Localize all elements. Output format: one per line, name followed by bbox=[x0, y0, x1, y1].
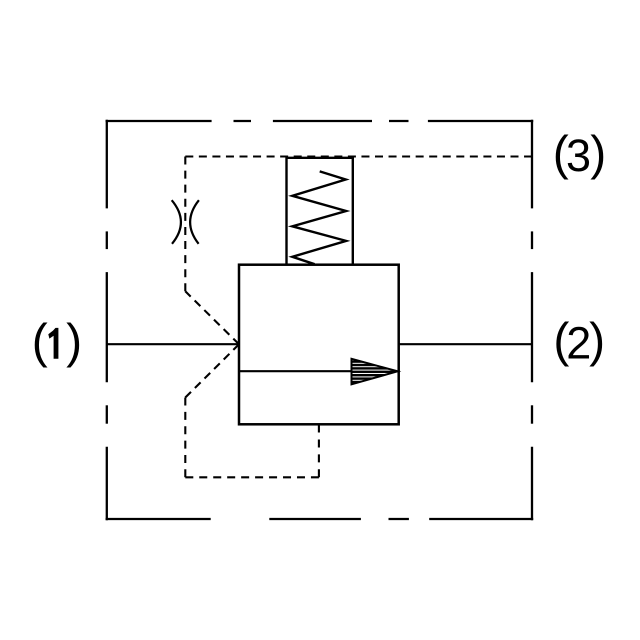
svg-text:): ) bbox=[66, 315, 82, 368]
svg-text:3: 3 bbox=[566, 130, 591, 181]
svg-text:2: 2 bbox=[566, 318, 591, 369]
svg-text:): ) bbox=[590, 128, 606, 181]
svg-text:(: ( bbox=[32, 315, 48, 368]
svg-text:): ) bbox=[589, 315, 605, 368]
